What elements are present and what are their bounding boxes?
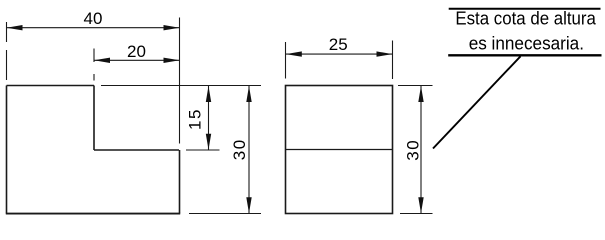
extension line y=213.5 right view bottom extended right — [400, 213, 433, 215]
dimension 20 — [94, 59, 180, 61]
dimension 30 left view — [248, 86, 250, 213]
dimension 30 right view — [420, 86, 422, 213]
svg-text:Esta cota de altura: Esta cota de altura — [455, 8, 596, 28]
left view step vertical — [93, 86, 95, 151]
extension line x=285.5 (dim 25 left) — [285, 42, 287, 79]
dimension 40 — [7, 27, 180, 29]
left view right edge — [179, 150, 181, 214]
extension line x=179.5 (dims 40/20 right) — [179, 18, 181, 144]
leader line to dimension 30 — [433, 56, 521, 148]
svg-text:40: 40 — [84, 9, 103, 28]
extension line y=150 step face extended right — [186, 149, 220, 151]
svg-text:25: 25 — [329, 35, 348, 54]
right view outline — [286, 86, 393, 214]
svg-text:es innecesaria.: es innecesaria. — [469, 34, 584, 54]
note bottom rule — [448, 54, 601, 56]
extension line y=85.5 right view top extended right — [398, 85, 433, 87]
svg-text:20: 20 — [127, 42, 146, 61]
svg-text:30: 30 — [230, 138, 249, 160]
svg-text:30: 30 — [404, 139, 423, 161]
extension line y=85.5 top of left view extended right — [101, 85, 261, 87]
right view mid line — [286, 149, 393, 151]
extension line x=392.5 (dim 25 right) — [392, 41, 394, 80]
left view bottom edge — [6, 213, 180, 215]
extension line x=94 (dim 20 left) — [93, 49, 95, 63]
note top rule — [449, 8, 601, 10]
extension line y=213.5 bottom extended right — [189, 213, 261, 215]
left view step face — [94, 149, 179, 151]
dimension 25 — [286, 53, 393, 55]
svg-text:15: 15 — [186, 108, 205, 130]
left view top edge — [7, 85, 95, 87]
extension line left x=6.5 — [6, 22, 8, 42]
left view left edge — [6, 86, 8, 214]
dimension 15 — [208, 86, 210, 150]
